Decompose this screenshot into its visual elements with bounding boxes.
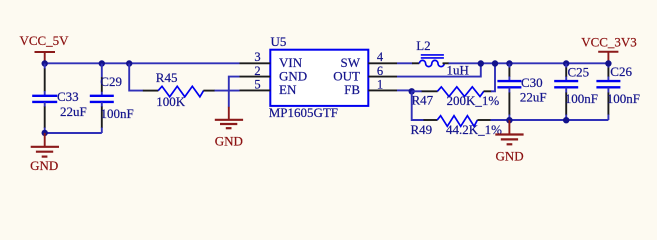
svg-text:44.2K_1%: 44.2K_1% [446,122,502,137]
svg-text:4: 4 [377,50,384,64]
node junction C33 bottom / GND [42,130,48,136]
svg-text:GND: GND [30,158,58,173]
svg-text:2: 2 [254,64,260,78]
node junction VCC_5V rail [42,60,48,66]
ground GND right [495,120,523,163]
wire FB stub [397,89,412,91]
svg-text:C33: C33 [57,89,79,104]
capacitor C25 [554,64,598,121]
wire GND pin 2 drop [229,77,240,108]
svg-text:VCC_5V: VCC_5V [19,33,69,48]
node junction C25 top [563,60,569,66]
wire L2 to VCC_3V3 rail [449,62,609,64]
svg-text:1uH: 1uH [447,63,469,78]
pin 5 EN [240,78,271,92]
svg-text:1: 1 [377,78,383,92]
svg-text:6: 6 [377,64,383,78]
pin 3 VIN [240,50,271,64]
node junction C30 top [506,60,512,66]
svg-text:R45: R45 [156,70,178,85]
svg-text:EN: EN [279,82,297,97]
svg-text:U5: U5 [271,34,287,49]
svg-text:100nF: 100nF [101,106,134,121]
wire OUT loop to rail [397,63,481,76]
svg-text:3: 3 [254,50,260,64]
wire SW to L2 [397,62,413,64]
resistor R49 [411,116,503,137]
svg-text:FB: FB [344,82,360,97]
svg-text:5: 5 [254,78,260,92]
power port VCC_5V [19,33,69,63]
svg-text:C29: C29 [100,74,122,89]
pin 1 FB [368,78,397,92]
svg-text:C30: C30 [521,75,543,90]
resistor R45 [143,70,215,109]
svg-text:GND: GND [496,148,524,163]
wire R45 to EN pin 5 [215,90,240,92]
ground GND left [30,133,59,173]
wire top rail VCC_5V to U5 pin 3 [45,62,240,64]
svg-text:R49: R49 [411,122,433,137]
capacitor C30 [497,64,546,121]
node junction GND rail [506,117,512,123]
node junction FB [409,88,415,94]
svg-text:L2: L2 [416,38,430,53]
capacitor C29 [90,60,134,133]
capacitor C33 [32,64,87,133]
IC U5 (MP1605GTF buck regulator) [269,34,369,120]
svg-text:22uF: 22uF [60,104,87,119]
svg-text:200K_1%: 200K_1% [447,93,500,108]
wire R49 to GND node [491,119,510,121]
wire FB down to R49 [412,91,424,120]
node junction R47/rail [492,60,498,66]
pin 2 GND [240,64,271,78]
capacitor C26 [596,64,640,121]
wire R47 to rail [491,63,495,91]
svg-text:22uF: 22uF [520,90,547,105]
svg-text:100nF: 100nF [565,91,598,106]
resistor R47 [412,87,500,108]
node junction VCC_3V3 / C26 [605,60,611,66]
pin 6 OUT [368,64,397,78]
svg-text:GND: GND [215,133,243,148]
svg-text:C26: C26 [610,64,632,79]
svg-text:100K: 100K [156,94,186,109]
inductor L2 [412,38,469,78]
svg-text:C25: C25 [568,65,590,80]
svg-text:MP1605GTF: MP1605GTF [269,105,338,120]
wire bottom GND rail [509,119,608,121]
svg-text:VCC_3V3: VCC_3V3 [581,34,637,49]
node junction OUT/rail [478,60,484,66]
pin 4 SW [368,50,397,64]
svg-text:100nF: 100nF [607,91,640,106]
wire R45 feed [129,64,143,91]
node junction R45 drop [126,60,132,66]
node junction C25 bottom [563,117,569,123]
svg-text:R47: R47 [412,92,434,107]
power port VCC_3V3 [581,34,637,63]
wire bottom left rail C29 to C33/GND [45,132,102,134]
ground GND middle (U5 pin2) [215,107,243,149]
